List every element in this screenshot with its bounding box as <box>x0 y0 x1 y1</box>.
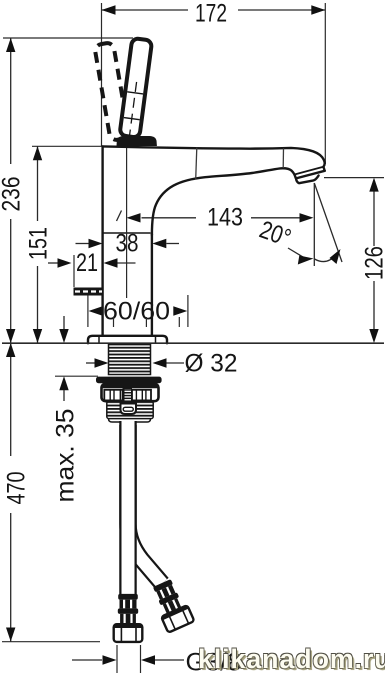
lower threaded block <box>107 401 153 422</box>
handle lever open dashed <box>94 42 129 141</box>
20 degree indicator <box>256 183 342 266</box>
dim 126 right <box>324 178 385 343</box>
left hose <box>119 421 137 594</box>
dim 60/60 <box>88 295 188 327</box>
spout top edge <box>103 146 325 170</box>
body joint line <box>104 232 151 234</box>
body right edge <box>151 234 153 336</box>
svg-text:236: 236 <box>0 177 26 212</box>
right hose (behind) <box>128 425 162 584</box>
dim 38 <box>76 230 180 258</box>
svg-text:143: 143 <box>207 204 243 232</box>
dim 236 left <box>0 38 133 343</box>
right hose connector <box>149 577 195 632</box>
svg-text:470: 470 <box>3 472 31 505</box>
threaded stud <box>124 389 132 405</box>
dim 151 left <box>24 146 102 343</box>
dim 172 top <box>102 0 326 164</box>
dim 143 <box>117 204 314 232</box>
faucet body outline <box>74 146 325 335</box>
spout underside curve <box>152 168 296 235</box>
spout tick 2 <box>282 148 284 168</box>
dim diameter 32 <box>86 350 238 378</box>
dim G3/8 bottom <box>72 645 242 675</box>
dim 470 left <box>2 343 100 642</box>
svg-text:max. 35: max. 35 <box>52 409 80 503</box>
svg-text:Ø 32: Ø 32 <box>185 350 238 378</box>
mounting flange <box>88 336 167 344</box>
mounting nut <box>102 384 159 404</box>
spout tick 1 <box>196 148 197 180</box>
svg-text:172: 172 <box>195 0 227 28</box>
dim max. 35 <box>52 316 99 503</box>
svg-text:126: 126 <box>361 246 385 280</box>
svg-text:klikanadom.ru: klikanadom.ru <box>198 644 385 674</box>
left hose connector <box>114 594 143 642</box>
handle base dome <box>117 136 157 146</box>
svg-text:151: 151 <box>24 227 52 260</box>
axis centerline <box>126 148 128 298</box>
body left edge <box>101 146 103 335</box>
hot cold marker box <box>74 288 104 296</box>
washer <box>96 377 162 384</box>
threaded shank <box>109 345 151 375</box>
svg-text:21: 21 <box>76 249 98 277</box>
handle lever solid <box>119 38 152 141</box>
dim 21 <box>48 249 136 287</box>
spout tip aerator <box>296 171 325 183</box>
mounting surface line <box>2 342 384 344</box>
